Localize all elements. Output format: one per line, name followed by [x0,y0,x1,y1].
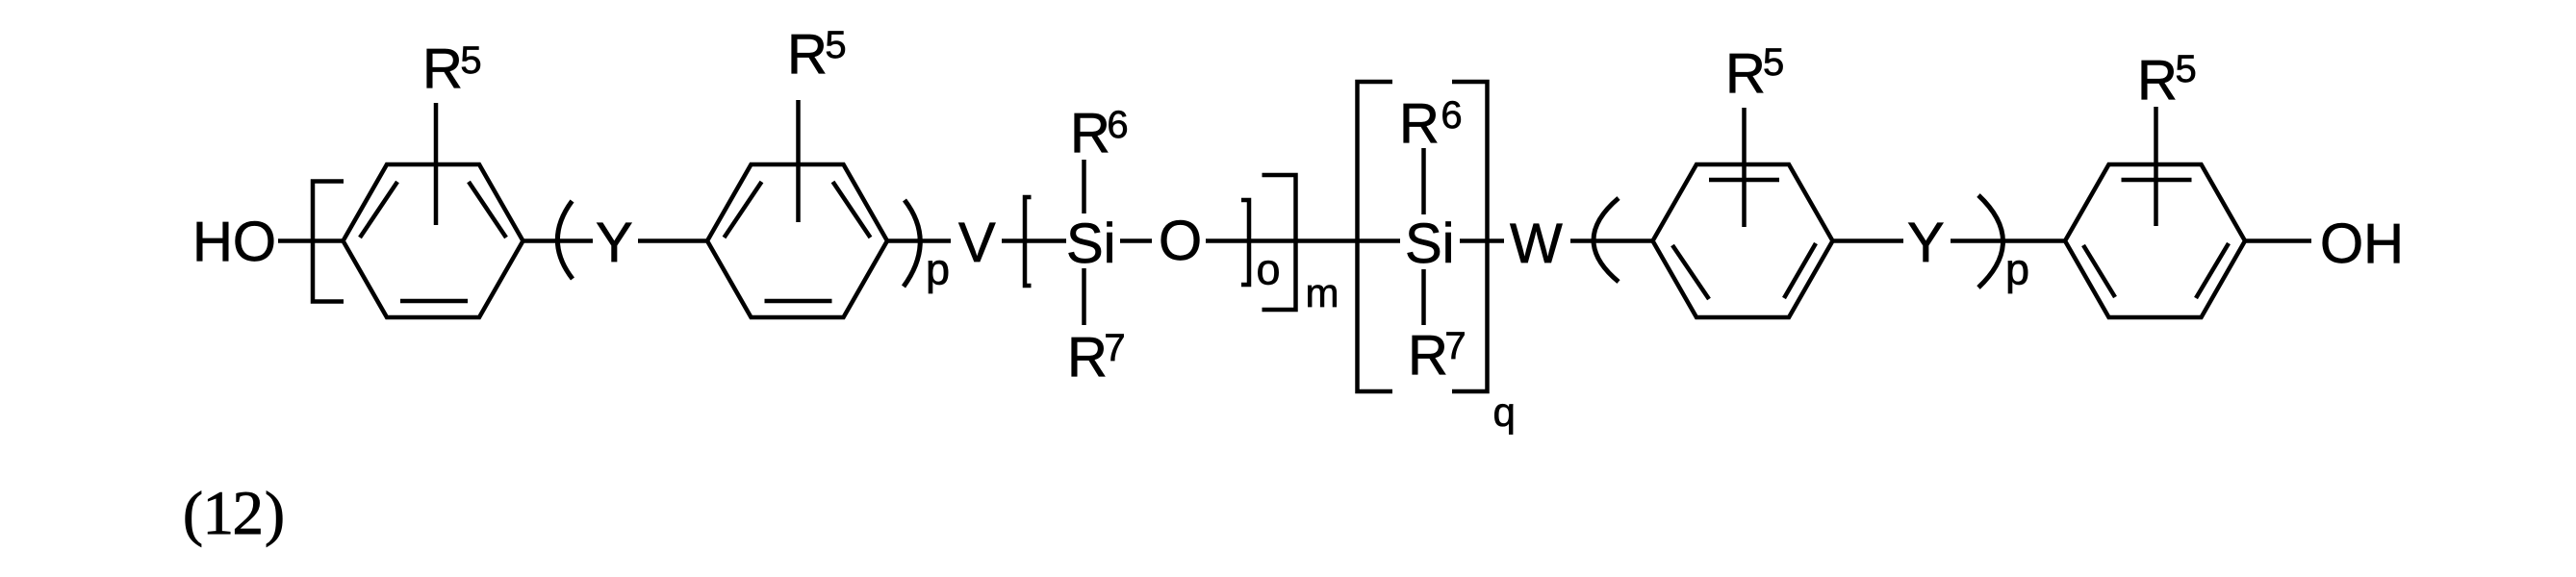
svg-text:Y: Y [1907,212,1945,274]
open parenthesis after W [1594,198,1619,282]
svg-text:R: R [2137,49,2178,112]
svg-text:W: W [1510,213,1563,275]
svg-text:p: p [926,245,950,294]
svg-text:5: 5 [2176,48,2197,90]
stem Si2 to R6 [1421,148,1426,214]
svg-text:R: R [1067,326,1108,389]
left square bracket [313,182,344,302]
bond ring 4 to OH [2245,238,2311,243]
svg-text:p: p [2005,245,2029,294]
svg-text:1: 1 [203,479,235,548]
svg-text:R: R [422,38,463,100]
open parenthesis before Y [557,201,573,279]
ring 2 inner double bond upper-right [833,182,871,238]
ring 3 inner double bond top [1709,178,1779,183]
bond Si2 to W [1460,238,1504,243]
svg-text:m: m [1306,270,1339,315]
ring 4 inner double bond lower-left [2083,245,2115,297]
close bracket subscript o [1241,200,1249,285]
ring 3 inner double bond lower-right [1784,243,1816,298]
svg-text:OH: OH [2320,213,2404,275]
ring 1 inner double bond upper-right [469,182,506,238]
bond W to ring 3 [1570,238,1653,243]
ring 3 inner double bond lower-left [1672,245,1709,299]
svg-text:7: 7 [1444,325,1466,367]
svg-text:R: R [1399,92,1440,155]
svg-text:o: o [1257,245,1281,294]
large open bracket q group [1358,82,1393,391]
bond Y to ring 2 [638,238,707,243]
bond O to second Si group [1206,238,1400,243]
ring 4 inner double bond top [2122,178,2192,183]
svg-text:(: ( [183,480,203,547]
ring 1 inner double bond upper-left [360,182,397,238]
bond ring 1 to Y [523,238,594,243]
stem Si to R7 [1082,268,1086,325]
svg-text:6: 6 [1441,94,1462,137]
svg-text:Si: Si [1405,213,1455,275]
benzene ring 4 [2065,164,2245,317]
benzene ring 2 [707,164,887,317]
close parenthesis after ring 2 [904,200,920,287]
svg-text:6: 6 [1107,104,1128,146]
square bracket before Si group [1025,197,1032,286]
svg-text:5: 5 [460,39,481,82]
large close bracket q group [1452,82,1488,391]
bond Y to ring 4 [1951,238,2065,243]
svg-text:7: 7 [1104,327,1125,369]
close bracket subscript m [1262,175,1296,310]
svg-text:Y: Y [596,212,633,274]
stem Si to R6 [1082,160,1086,213]
ring 2 inner double bond bottom [765,299,832,304]
bond Si to O [1120,238,1152,243]
svg-text:5: 5 [825,24,846,66]
ring 4 inner double bond lower-right [2196,243,2229,298]
svg-text:R: R [1408,324,1448,387]
bond HO to ring 1 [278,238,344,243]
svg-text:Si: Si [1066,213,1116,275]
svg-text:R: R [1725,42,1766,105]
ring 2 inner double bond upper-left [725,182,762,238]
ring 1 inner double bond bottom [400,299,468,304]
ring 4 substituent stem to R5 [2154,107,2158,226]
svg-text:2: 2 [233,479,265,548]
svg-text:HO: HO [192,211,276,273]
svg-text:O: O [1159,210,1202,272]
svg-text:5: 5 [1763,41,1784,84]
svg-text:q: q [1493,389,1516,435]
bond V to Si [1002,238,1066,243]
benzene ring 1 [344,164,523,317]
bond ring 3 to Y [1833,238,1904,243]
ring 1 substituent stem to R5 [434,103,439,225]
svg-text:R: R [787,23,828,86]
ring 3 substituent stem to R5 [1742,108,1747,227]
stem Si2 to R7 [1421,269,1426,325]
close parenthesis before ring 4 [1978,195,2003,288]
svg-text:): ) [265,480,285,547]
svg-text:R: R [1070,102,1110,164]
ring 2 substituent stem to R5 [796,100,801,222]
benzene ring 3 [1653,164,1833,317]
bond ring 2 through close parenthesis [887,238,951,243]
svg-text:V: V [958,212,996,274]
